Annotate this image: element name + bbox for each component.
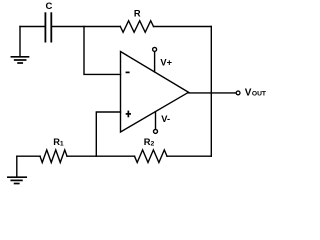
svg-text:V-: V- [161, 114, 170, 124]
wire: junction x=96.3 up to non-inverting input [96, 112, 120, 156]
wire: top-left ground to capacitor [20, 26, 45, 28]
svg-text:1: 1 [60, 140, 64, 147]
V- terminal [154, 112, 158, 134]
svg-text:C: C [45, 1, 52, 12]
ground (bottom-left) [8, 156, 26, 183]
svg-text:2: 2 [151, 141, 155, 148]
output wire [189, 92, 237, 94]
V+ terminal [153, 47, 157, 72]
op-amp U1 [121, 52, 189, 133]
wire: R1 to R2 (junction at x=96.3) [67, 155, 135, 157]
inverting input marker (-) [126, 71, 130, 73]
non-inverting input marker (+) [126, 111, 131, 118]
wire: capacitor to resistor R (junction at x=84) [52, 26, 120, 28]
wire: junction x=84 down to inverting input [84, 27, 121, 75]
capacitor C [45, 1, 52, 42]
label VOUT [245, 88, 267, 99]
resistor R2 [135, 137, 168, 162]
wire: right vertical feedback line [210, 27, 212, 157]
svg-text:R: R [134, 9, 141, 19]
svg-text:V: V [245, 88, 252, 99]
svg-text:OUT: OUT [252, 91, 267, 98]
resistor R1 [40, 137, 67, 163]
resistor R [120, 9, 153, 33]
svg-text:V+: V+ [160, 57, 172, 67]
ground (top-left) [11, 27, 28, 64]
output terminal [236, 91, 240, 95]
wire: R2 to bottom-right corner [167, 155, 211, 157]
wire: bottom ground to R1 [17, 155, 40, 157]
wire: R to top-right corner [154, 26, 212, 28]
